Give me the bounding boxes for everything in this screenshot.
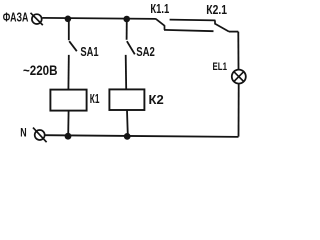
svg-text:К2: К2	[149, 92, 164, 107]
svg-text:N: N	[20, 128, 26, 140]
wire: lamp EL1 top lead	[237, 32, 239, 70]
wire: SA2 branch upper	[126, 19, 128, 40]
contact K2.1 of relay K2 (upper throw tick + blade)	[214, 20, 229, 31]
svg-text:~220В: ~220В	[23, 62, 58, 78]
svg-text:К1: К1	[90, 92, 100, 106]
contact K1.1 of relay K1 (blade + lower throw tick)	[156, 19, 165, 30]
switch SA2	[127, 41, 135, 54]
wire: SA1 to K1 coil	[67, 55, 69, 90]
junction: neutral rail / K2	[124, 133, 131, 140]
svg-text:SA1: SA1	[80, 44, 98, 59]
junction: neutral rail / K1	[65, 133, 72, 140]
svg-text:EL1: EL1	[213, 61, 228, 73]
svg-text:К1.1: К1.1	[150, 2, 169, 16]
wire: bottom neutral rail	[45, 135, 238, 137]
relay coil K2	[109, 89, 144, 110]
svg-text:ФАЗА: ФАЗА	[3, 11, 29, 25]
wire: K2.1 common to lamp drop	[229, 31, 238, 33]
junction: phase rail / SA1 branch	[65, 15, 72, 22]
wire: lamp EL1 bottom lead	[238, 84, 240, 137]
junction: phase rail / SA2 branch	[123, 16, 130, 23]
wire: K1 coil to neutral rail	[67, 111, 69, 135]
switch SA1	[69, 41, 77, 51]
wire: lower throw line between K1.1 and K2.1	[164, 30, 214, 31]
wire: upper throw line between K1.1 and K2.1	[170, 19, 216, 22]
svg-text:SA2: SA2	[136, 44, 155, 59]
wire: SA2 to K2 coil	[125, 55, 128, 90]
relay coil K1	[50, 90, 86, 111]
wire: K2 coil to neutral rail	[126, 110, 129, 135]
terminal: neutral (N)	[33, 128, 47, 143]
wire: SA1 branch upper	[68, 18, 70, 40]
svg-text:К2.1: К2.1	[206, 2, 227, 17]
lamp EL1	[232, 70, 246, 84]
wire: top phase rail	[42, 18, 156, 19]
terminal: phase input	[31, 13, 43, 25]
